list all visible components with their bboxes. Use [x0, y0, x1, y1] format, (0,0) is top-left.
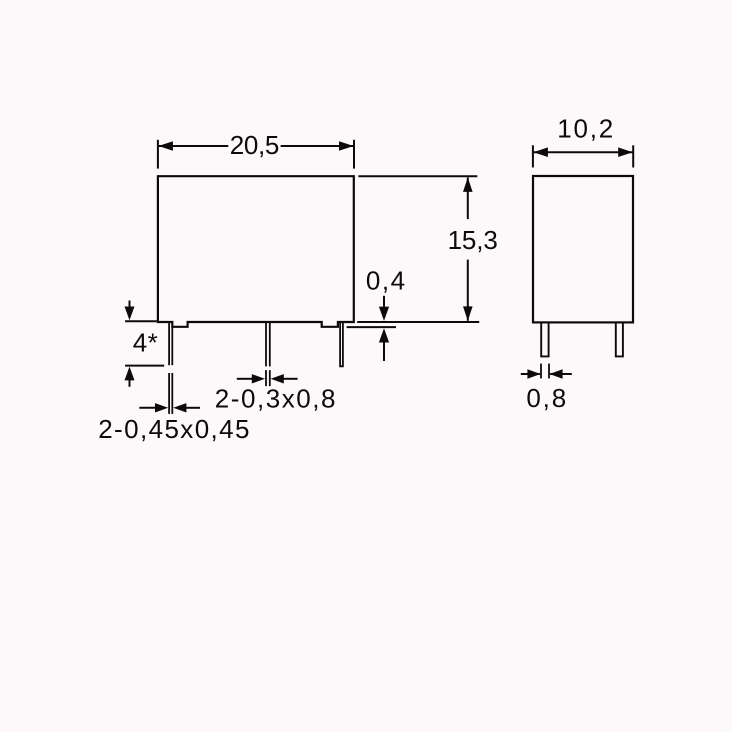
dimension 0,4 upper arrow (points down): [379, 296, 389, 321]
dimension 0,8 extension ticks: [541, 364, 549, 379]
dimension 0,4 lower arrow (points up): [379, 328, 389, 361]
dimension 10,2 line and arrows: [534, 151, 633, 153]
svg-text:4*: 4*: [133, 327, 158, 357]
svg-text:2-0,3x0,8: 2-0,3x0,8: [215, 383, 336, 413]
side view relay body: [533, 176, 633, 322]
front pin 1 (0.45 sq, with break): [169, 322, 172, 414]
dimension 2-0,45x0,45 line and arrows: [139, 407, 200, 409]
svg-text:10,2: 10,2: [557, 114, 613, 144]
front view relay body: [158, 176, 354, 327]
dimension 4* upper arrow (points down): [125, 301, 135, 321]
svg-text:0,4: 0,4: [366, 266, 405, 296]
svg-text:20,5: 20,5: [230, 130, 280, 160]
front pin 3 (right, closed end): [340, 322, 343, 367]
dimension 4* lower arrow (points up): [125, 367, 135, 387]
svg-text:2-0,45x0,45: 2-0,45x0,45: [98, 414, 249, 444]
dimension 4* upper reference line: [125, 320, 157, 322]
svg-text:15,3: 15,3: [448, 225, 498, 255]
dimension 20,5 line and arrows: [159, 145, 354, 147]
dimension 0,8 line and arrows (outside): [521, 373, 572, 375]
dimension 20,5 extension lines: [158, 140, 354, 169]
svg-text:0,8: 0,8: [526, 383, 566, 413]
dimension 2-0,3x0,8 line and arrows: [237, 378, 298, 380]
dimension 15,3 line and arrows: [467, 178, 469, 321]
side pin right (closed end): [616, 322, 623, 357]
dimension 15,3 top extension line: [358, 175, 477, 177]
dimension 15,3 bottom extension line (shared with 0,4 upper): [357, 321, 479, 323]
dimension 0,4 lower reference line: [347, 326, 396, 328]
dimension 4* lower reference line: [125, 365, 164, 367]
front pin 2 (middle 0.3, with break): [266, 322, 270, 387]
side pin left (closed end): [541, 322, 548, 357]
dimension 10,2 extension lines: [533, 145, 633, 167]
